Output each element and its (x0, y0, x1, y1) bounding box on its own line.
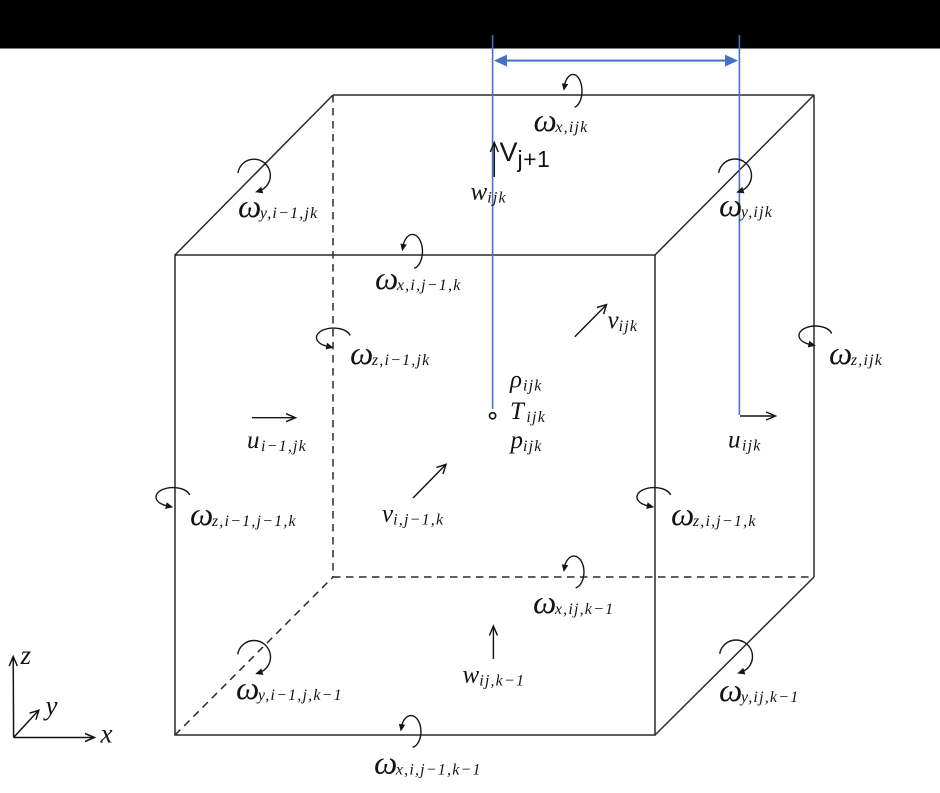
svg-text:ωy,i−1,jk: ωy,i−1,jk (238, 189, 318, 225)
rotation symbol omega_z,i-1,j-1,k (156, 488, 190, 509)
rotation symbol omega_y,i-1,jk (238, 159, 270, 193)
svg-text:ωy,ijk: ωy,ijk (719, 188, 773, 224)
rotation symbol omega_x,i,j-1,k (400, 234, 422, 268)
velocity arrow v_i,j-1,k head (436, 464, 446, 474)
svg-text:ui−1,jk: ui−1,jk (247, 427, 307, 455)
svg-text:ωx,ij,k−1: ωx,ij,k−1 (533, 585, 614, 621)
blue dimension line right (V_j+1 line) (738, 35, 740, 415)
rotation symbol omega_z,i-1,jk (316, 328, 350, 349)
rotation symbol omega_y,ij,k-1 (720, 640, 753, 674)
svg-text:ωz,ijk: ωz,ijk (829, 336, 883, 372)
rotation symbol omega_x,ij,k-1 (562, 556, 584, 588)
coordinate axes bottom-left (9, 657, 94, 742)
cube hidden back-bottom edge (dashed) (333, 576, 814, 578)
velocity arrow u_i-1,jk head (286, 414, 296, 422)
svg-text:ωx,i,j−1,k−1: ωx,i,j−1,k−1 (374, 746, 482, 782)
velocity arrow w_ij,k-1 head (489, 626, 497, 636)
blue dimension line left (V_j line) (492, 35, 494, 409)
axis z (12, 657, 14, 738)
cube hidden back-left vertical edge (dashed) (332, 95, 334, 577)
velocity arrow u_ijk head (766, 412, 776, 420)
svg-text:ρijk: ρijk (509, 367, 543, 395)
rotation symbol omega_y,ijk (719, 159, 752, 193)
axis y (14, 711, 38, 738)
velocity arrow v_ijk head (597, 305, 607, 315)
cube front face (175, 255, 655, 735)
cube top-left diagonal edge (175, 95, 333, 255)
axis x (14, 737, 94, 739)
svg-text:wijk: wijk (471, 179, 507, 207)
rotation symbol omega_z,ijk (799, 326, 832, 347)
svg-text:vi,j−1,k: vi,j−1,k (382, 500, 444, 528)
svg-text:uijk: uijk (728, 427, 762, 455)
svg-text:ωy,i−1,j,k−1: ωy,i−1,j,k−1 (236, 671, 343, 707)
cube top-right diagonal edge (655, 95, 814, 255)
svg-text:vijk: vijk (608, 307, 639, 335)
cube hidden bottom-left diagonal edge (dashed) (175, 577, 333, 735)
velocity arrow u_ijk shaft (740, 415, 775, 417)
top black banner bar (0, 0, 940, 49)
velocity arrow w_ijk shaft (493, 143, 495, 177)
svg-text:ωz,i−1,j−1,k: ωz,i−1,j−1,k (190, 497, 297, 533)
svg-text:ωz,i,j−1,k: ωz,i,j−1,k (671, 497, 757, 533)
svg-text:ωx,ijk: ωx,ijk (534, 103, 589, 139)
center cell node dot (490, 413, 496, 419)
velocity arrow v_ijk shaft (575, 306, 606, 337)
svg-text:y: y (43, 691, 58, 721)
svg-text:ωy,ij,k−1: ωy,ij,k−1 (719, 673, 799, 709)
cube back-right vertical edge (813, 95, 815, 577)
svg-text:Vj+1: Vj+1 (500, 137, 551, 172)
svg-text:ωz,i−1,jk: ωz,i−1,jk (350, 336, 430, 372)
velocity arrow w_ijk head (490, 143, 498, 153)
rotation symbol omega_x,ijk (562, 74, 582, 107)
svg-text:x: x (100, 719, 113, 749)
svg-text:wij,k−1: wij,k−1 (463, 662, 526, 690)
rotation symbol omega_y,i-1,j,k-1 (238, 641, 271, 675)
cube bottom-right diagonal edge (655, 577, 814, 735)
velocity arrow v_i,j-1,k shaft (413, 465, 445, 498)
velocity arrow w_ij,k-1 shaft (492, 627, 494, 660)
rotation symbol omega_z,i,j-1,k (637, 488, 671, 509)
rotation symbol omega_x,i,j-1,k-1 (399, 716, 421, 748)
svg-text:Tijk: Tijk (510, 398, 546, 426)
svg-text:z: z (20, 640, 32, 670)
cube back-top edge (333, 94, 814, 96)
svg-text:pijk: pijk (509, 427, 543, 455)
blue horizontal double-headed dimension arrow (494, 55, 738, 67)
velocity arrow u_i-1,jk shaft (252, 417, 295, 419)
